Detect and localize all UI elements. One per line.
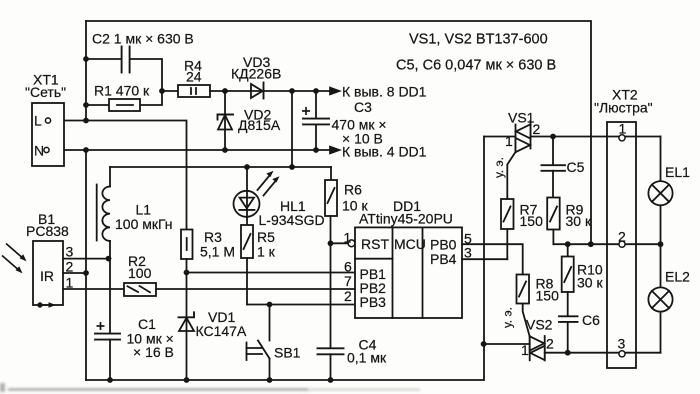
wire L1 bottom to C1 [109, 241, 111, 333]
junction (316,91) [313, 88, 319, 94]
wire +5V drop to rail [291, 91, 293, 167]
svg-text:3: 3 [618, 336, 626, 352]
capacitor C3 [303, 119, 329, 125]
wire left bus lower segment (N/GND) [85, 150, 87, 380]
C3 plus [97, 107, 311, 330]
wire lamp2 rail [553, 243, 660, 245]
svg-text:2: 2 [618, 229, 626, 245]
capacitor C4 [318, 348, 344, 354]
junction (186.5,272.5) [184, 270, 190, 276]
wire top live bus [86, 21, 591, 244]
resistor R10 [562, 257, 574, 293]
svg-text:3: 3 [66, 244, 74, 260]
B1 pin3 wire [63, 258, 109, 260]
svg-text:1: 1 [505, 133, 513, 149]
wire R1 branch [86, 104, 109, 106]
svg-text:C5, C6 0,047 мк × 630 В: C5, C6 0,047 мк × 630 В [396, 58, 556, 74]
junction (292,91) [289, 88, 295, 94]
wire R4 to pin8 arrow [210, 90, 336, 92]
connector XT1 box [32, 103, 64, 166]
resistor R8 [517, 275, 530, 304]
triac VS1 [515, 125, 517, 153]
svg-text:у. э.: у. э. [492, 157, 506, 178]
svg-text:2: 2 [533, 121, 541, 137]
terminal XT1 L [45, 118, 50, 123]
inductor L1 [109, 167, 111, 187]
svg-text:L: L [34, 113, 42, 129]
wire R5 to pin2 wire [246, 258, 248, 305]
lamp EL1 [648, 181, 672, 205]
junction (269.5,380) [267, 377, 273, 383]
resistor R1 [109, 99, 140, 111]
junction (86,150) [83, 147, 89, 153]
resistor R7 [506, 229, 508, 259]
svg-text:IR: IR [40, 268, 54, 284]
wire R6 feed [330, 167, 332, 180]
svg-text:С3: С3 [354, 99, 372, 115]
lamp EL2 [648, 287, 672, 311]
svg-text:30 к: 30 к [577, 275, 603, 291]
wire VS1/VS2 T1 vertical [483, 137, 485, 381]
svg-text:1: 1 [619, 121, 627, 137]
svg-text:VS1: VS1 [508, 110, 535, 126]
wire pin2 (PB3) [247, 304, 355, 306]
wire VS1 T2 to XT2-1 and EL1 [531, 136, 661, 138]
svg-text:К выв. 4 DD1: К выв. 4 DD1 [342, 144, 427, 160]
pushbutton SB1 [258, 341, 270, 359]
junction (567.7,352.7) [565, 350, 571, 356]
resistor R2 [124, 283, 156, 296]
junction (225,150) [222, 147, 228, 153]
svg-text:"Люстра": "Люстра" [594, 100, 653, 116]
svg-text:R6: R6 [344, 182, 362, 198]
svg-text:КС147А: КС147А [196, 323, 247, 339]
MCU DD1 box [355, 227, 462, 318]
junction (162,91) [159, 88, 165, 94]
wire SB1 to bus [269, 359, 271, 381]
connector XT2 box [607, 122, 636, 368]
svg-text:0,1 мк: 0,1 мк [347, 350, 387, 366]
svg-text:"Сеть": "Сеть" [25, 84, 66, 100]
LED HL1 emission arrows [258, 176, 270, 191]
svg-text:150: 150 [520, 213, 544, 229]
svg-text:1: 1 [521, 342, 529, 358]
svg-text:2: 2 [344, 288, 352, 304]
svg-text:MCU: MCU [394, 236, 426, 252]
IR arrows into B1 [6, 244, 25, 261]
svg-text:× 16 В: × 16 В [133, 344, 174, 360]
junction (225,91) [222, 88, 228, 94]
wire C2 branch [86, 58, 121, 60]
C1 plus [97, 325, 105, 327]
svg-text:24: 24 [186, 69, 202, 85]
wire C1 to bus [109, 340, 111, 380]
wire VS2 T2 to XT2-3 [545, 352, 661, 354]
wire C5 to R9 [552, 171, 554, 198]
svg-text:PB3: PB3 [360, 294, 387, 310]
wire N line [49, 149, 336, 151]
capacitor C2 [122, 47, 130, 73]
svg-text:L-934SGD: L-934SGD [259, 212, 325, 228]
wire VS1 T1 left [484, 136, 516, 138]
arrow to pin 8 DD1 [330, 88, 340, 95]
svg-text:3: 3 [464, 245, 472, 261]
svg-text:у. э.: у. э. [501, 307, 515, 328]
capacitor C6 [559, 316, 578, 322]
wire R2 to DD1 pin7 [156, 288, 355, 290]
wire C6 to lamp-3 rail [567, 322, 569, 353]
wire VD1 vertical [186, 273, 188, 381]
svg-text:1: 1 [66, 275, 74, 291]
svg-text:5,1 М: 5,1 М [200, 244, 235, 260]
junction (86,59) [83, 56, 89, 62]
svg-text:ATtiny45-20PU: ATtiny45-20PU [359, 211, 453, 227]
junction (86,120.5) [83, 118, 89, 124]
terminal XT2-2 [619, 241, 625, 247]
wire pin5 PB0 to R8 [462, 244, 523, 274]
svg-text:VS2: VS2 [526, 317, 553, 333]
junction (567.7,244.2) [565, 241, 571, 247]
svg-text:RST: RST [361, 236, 389, 252]
wire VD2 branch [224, 91, 226, 150]
wire pin3 PB4 to R7 [462, 258, 507, 260]
wire RST node to C4 [330, 243, 332, 348]
svg-text:1 к: 1 к [257, 244, 276, 260]
svg-text:С6: С6 [582, 312, 600, 328]
wire R6 to RST node [330, 216, 332, 243]
svg-text:VS1, VS2 BT137-600: VS1, VS2 BT137-600 [409, 32, 548, 48]
resistor R5 [241, 225, 253, 258]
resistor R4 [178, 85, 210, 97]
junction (330.5,380) [328, 377, 334, 383]
terminal XT2-1 [619, 135, 625, 141]
svg-text:EL1: EL1 [665, 164, 690, 180]
junction (110,380) [107, 377, 113, 383]
junction (660.5,244.2) [658, 241, 664, 247]
junction (292,167) [289, 164, 295, 170]
junction (269.5,304.5) [267, 302, 273, 308]
junction (86,273) [83, 270, 89, 276]
wire lamps chain [660, 137, 662, 182]
wire C4 to bus [330, 354, 332, 380]
B1 bottom output dot and arrow [37, 302, 42, 307]
junction (553,136.5) [550, 134, 556, 140]
svg-text:PC838: PC838 [26, 223, 69, 239]
IR receiver B1 box [33, 241, 63, 305]
capacitor C1 [95, 334, 120, 340]
wire RST to DD1 pin1 [331, 242, 349, 244]
wire R7 to VS1 gate [507, 152, 515, 199]
wire R8 to VS2 gate [523, 304, 530, 337]
wire VS2 T1 left [484, 343, 530, 345]
wire R10 to C6 [567, 292, 569, 316]
wire C3 branch [315, 91, 317, 118]
svg-text:7: 7 [344, 273, 352, 289]
junction (483.6,344) [481, 341, 487, 347]
wire +5V rail [110, 166, 331, 168]
wire SB1 top [269, 305, 271, 341]
svg-text:С5: С5 [567, 159, 585, 175]
svg-text:R1 470 к: R1 470 к [94, 83, 150, 99]
zener VD2 [218, 115, 232, 130]
B1 pin1 wire to R2 [63, 288, 124, 290]
junction (247,167) [244, 164, 250, 170]
wire R4 left [162, 90, 178, 92]
wire R9 to lamp-2 rail [552, 230, 554, 245]
terminal XT1 N [44, 147, 49, 152]
arrow to pin 4 DD1 [330, 147, 340, 154]
svg-text:EL2: EL2 [665, 269, 690, 285]
wire HL1 feed [246, 167, 248, 225]
junction (330.5,243.3) [328, 240, 334, 246]
LED HL1 [234, 191, 260, 217]
DD1 pin1 inversion circle [348, 240, 355, 247]
junction (590.8,244.2) [588, 241, 594, 247]
svg-text:N: N [34, 143, 44, 159]
junction (108.5,258.6) [106, 256, 112, 262]
wire R3 to pin6 [186, 259, 188, 273]
svg-text:SB1: SB1 [274, 345, 301, 361]
junction (186.5,380) [184, 377, 190, 383]
zener VD1 [179, 318, 194, 331]
resistor R3 [181, 230, 193, 260]
wire C5 branch [552, 137, 554, 166]
svg-text:1: 1 [344, 230, 352, 246]
svg-text:C2 1 мк × 630 В: C2 1 мк × 630 В [92, 31, 194, 47]
capacitor C5 [542, 165, 566, 171]
svg-text:2: 2 [66, 259, 74, 275]
svg-text:Д815А: Д815А [238, 117, 281, 133]
wire bottom ground bus [86, 379, 484, 381]
wire pin6 (PB1) [187, 272, 356, 274]
svg-text:100 мкГн: 100 мкГн [115, 216, 173, 232]
resistor R6 [325, 180, 337, 216]
svg-text:100: 100 [128, 265, 152, 281]
svg-text:30 к: 30 к [566, 213, 592, 229]
arrows [2, 88, 340, 308]
wire left bus upper segment (L) [85, 21, 87, 121]
svg-text:PB4: PB4 [430, 251, 457, 267]
triac VS2 [529, 336, 531, 360]
resistor R9 [547, 198, 560, 230]
svg-text:КД226В: КД226В [231, 66, 281, 82]
wire XT1 L to R3 drop [51, 121, 187, 230]
junction (316,150) [313, 147, 319, 153]
wire R10 top [567, 244, 569, 256]
svg-text:150: 150 [536, 288, 560, 304]
B1 pin2 wire [63, 272, 86, 274]
svg-text:К выв. 8 DD1: К выв. 8 DD1 [342, 84, 427, 100]
diode VD3 [251, 84, 263, 98]
svg-text:2: 2 [546, 336, 554, 352]
junction (86,105) [83, 102, 89, 108]
terminal XT2-3 [619, 351, 625, 357]
